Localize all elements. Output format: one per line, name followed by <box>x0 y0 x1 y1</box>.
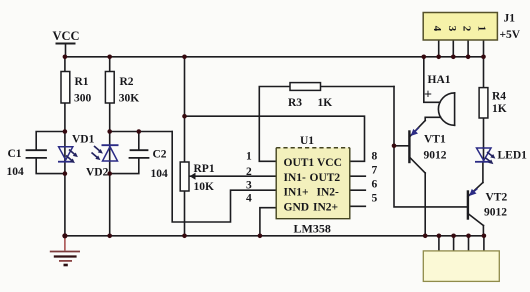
wire C2 top lead <box>138 132 140 151</box>
transistor VT2 emitter arrow <box>469 189 477 197</box>
wire VCC symbol lead <box>65 44 67 57</box>
svg-text:3: 3 <box>246 180 252 192</box>
node J1 pin 3 <box>451 55 456 60</box>
svg-text:104: 104 <box>7 166 25 178</box>
svg-text:5: 5 <box>372 193 378 205</box>
svg-text:4: 4 <box>431 26 443 32</box>
node VD1 bottom <box>63 171 68 176</box>
svg-text:10K: 10K <box>194 181 215 193</box>
wire bottom connector pin stubs <box>438 236 440 251</box>
svg-text:2: 2 <box>461 26 473 32</box>
node ground rail / R2 branch <box>107 234 112 239</box>
svg-text:IN2+: IN2+ <box>313 202 338 214</box>
svg-text:300: 300 <box>74 93 92 105</box>
wire RP1 top branch from VCC rail <box>184 57 186 162</box>
wire top VCC rail <box>65 56 484 58</box>
wire R3 column to VT2 base <box>394 87 468 207</box>
node J1 pin 1 / R4 <box>481 55 486 60</box>
svg-text:GND: GND <box>284 202 310 214</box>
svg-text:C2: C2 <box>153 149 167 161</box>
svg-text:LM358: LM358 <box>294 222 331 236</box>
capacitor C2 plates <box>131 149 148 151</box>
svg-text:4: 4 <box>246 193 252 205</box>
wire node VD2/C2 to IC pin 3 <box>172 132 276 223</box>
wire VT2 collector down to ground rail <box>482 226 484 236</box>
wire IC pin 1 to R3 left lead <box>259 87 290 162</box>
node VCC rail / RP1 branch <box>182 55 187 60</box>
resistor R2 <box>105 72 114 104</box>
wire IC pin 7 stub <box>350 175 365 177</box>
node VT1 base tap <box>392 144 397 149</box>
wire R4 top lead from J1 pin 1 <box>483 57 485 88</box>
power VCC symbol <box>57 43 75 45</box>
wire HA1 top lead from VCC rail <box>424 57 440 103</box>
svg-text:HA1: HA1 <box>428 74 451 86</box>
wire C2 top loop <box>110 131 173 133</box>
svg-text:2: 2 <box>246 166 252 178</box>
node RP1 branch / pin 8 feed <box>182 114 187 119</box>
svg-text:1K: 1K <box>318 97 333 109</box>
potentiometer RP1 wiper arrow <box>190 173 196 180</box>
node VCC rail / R2 <box>107 55 112 60</box>
svg-text:R4: R4 <box>492 91 506 103</box>
wire IC pin 5 stub <box>350 205 365 207</box>
wire R2 top lead <box>109 57 111 72</box>
wire R1 bottom lead down to ground rail <box>64 103 66 236</box>
svg-text:1: 1 <box>246 151 252 163</box>
wire J1 pin 2 stub <box>467 40 469 57</box>
node bottom connector pin a <box>437 234 442 239</box>
svg-text:OUT1: OUT1 <box>284 157 315 169</box>
resistor R3 <box>290 83 321 91</box>
node VCC rail / R1 <box>63 55 68 60</box>
svg-text:U1: U1 <box>300 135 314 147</box>
diode LED1 <box>475 148 495 164</box>
node VD2 bottom <box>107 171 112 176</box>
svg-text:VCC: VCC <box>317 157 342 169</box>
wire C1 top loop <box>36 132 65 151</box>
node bottom connector pin b <box>451 234 456 239</box>
wire J1 pin 3 stub <box>452 40 454 57</box>
svg-text:9012: 9012 <box>424 150 447 162</box>
buzzer HA1 horn <box>454 93 456 125</box>
wire R3 right lead <box>321 86 395 88</box>
transistor VT1 emitter arrow <box>411 128 419 137</box>
svg-text:9012: 9012 <box>484 207 507 219</box>
transistor VT2 body <box>467 192 469 219</box>
resistor R4 <box>479 88 488 118</box>
node VD2 top <box>107 129 112 134</box>
node J1 pin 4 <box>436 55 441 60</box>
node ground rail / VT1 collector <box>423 234 428 239</box>
wire R1 top lead <box>64 57 66 72</box>
svg-text:IN2-: IN2- <box>317 187 340 199</box>
svg-text:VCC: VCC <box>53 29 80 43</box>
svg-text:1K: 1K <box>492 103 507 115</box>
wire VT1 base <box>394 145 409 147</box>
ground symbol <box>50 237 80 265</box>
wire VCC branch to IC pin 8 <box>185 116 365 161</box>
wire VT1 collector down to ground rail <box>424 173 426 236</box>
connector bottom module body <box>423 251 499 282</box>
resistor R1 <box>61 72 70 104</box>
svg-text:3: 3 <box>446 26 458 32</box>
wire RP1 wiper to IC pin 2 <box>190 175 276 177</box>
svg-text:C1: C1 <box>8 148 22 160</box>
svg-text:IN1-: IN1- <box>284 172 307 184</box>
op-amp U1 LM358 body <box>276 148 350 219</box>
wire C2 bottom loop <box>110 158 139 174</box>
wire bottom ground rail <box>65 235 484 237</box>
svg-text:VT1: VT1 <box>424 134 446 146</box>
svg-text:104: 104 <box>151 168 169 180</box>
node bottom connector pin c <box>466 234 471 239</box>
svg-text:J1: J1 <box>504 13 516 25</box>
svg-text:VD2: VD2 <box>86 167 109 179</box>
wire VT2 emitter up to LED1 <box>482 162 484 183</box>
svg-text:8: 8 <box>372 151 378 163</box>
svg-text:6: 6 <box>372 179 378 191</box>
wire HA1 bottom lead to VT1 emitter <box>425 117 440 120</box>
wire LED1 cathode lead <box>483 148 485 162</box>
node J1 pin 2 <box>466 55 471 60</box>
svg-text:OUT2: OUT2 <box>310 172 341 184</box>
node C2 top <box>137 129 142 134</box>
svg-text:LED1: LED1 <box>498 150 528 162</box>
transistor VT1 body <box>408 132 410 163</box>
svg-text:1: 1 <box>476 26 488 32</box>
node VCC rail / HA1 lead <box>422 55 427 60</box>
wire R4 bottom lead to LED1 anode <box>483 118 485 148</box>
svg-text:VD1: VD1 <box>72 134 95 146</box>
node ground rail / RP1 <box>182 234 187 239</box>
svg-text:+5V: +5V <box>500 29 521 41</box>
svg-text:7: 7 <box>372 165 378 177</box>
svg-text:R1: R1 <box>75 76 89 88</box>
capacitor C1 plates <box>27 149 47 151</box>
wire R2 bottom lead down to ground rail <box>109 103 111 236</box>
wire J1 pin 4 stub <box>438 40 440 57</box>
node ground rail / IC pin 4 <box>258 234 263 239</box>
svg-text:IN1+: IN1+ <box>284 187 309 199</box>
wire J1 pin 1 stub <box>483 40 485 57</box>
wire C1 bottom loop <box>36 158 65 174</box>
svg-text:R3: R3 <box>288 97 302 109</box>
wire IC pin 6 stub <box>350 189 365 191</box>
svg-text:R2: R2 <box>120 76 134 88</box>
node ground rail / R1 branch <box>62 233 67 238</box>
node bottom connector pin d / VT2 collector <box>482 234 487 239</box>
connector J1 body <box>423 13 497 41</box>
wire IC pin 4 GND to ground rail <box>260 208 276 236</box>
svg-text:RP1: RP1 <box>194 163 215 175</box>
diode VD1 infrared emitter <box>58 147 78 163</box>
wire RP1 bottom lead to ground rail <box>184 191 186 236</box>
svg-text:30K: 30K <box>119 93 140 105</box>
diode VD2 infrared receiver <box>92 145 119 161</box>
node VD1 top <box>63 129 68 134</box>
svg-text:+: + <box>424 88 432 103</box>
potentiometer RP1 body <box>180 162 189 191</box>
svg-text:VT2: VT2 <box>486 192 508 204</box>
